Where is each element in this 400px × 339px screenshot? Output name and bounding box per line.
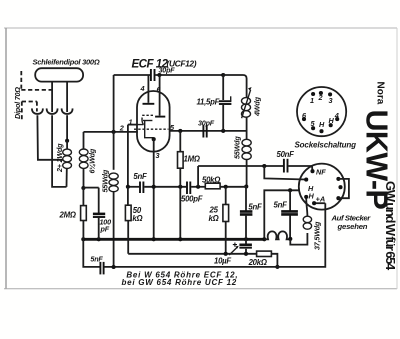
svg-text:10µF: 10µF <box>214 257 231 266</box>
svg-text:5nF: 5nF <box>90 254 103 263</box>
svg-text:37,5Wdg: 37,5Wdg <box>313 221 322 250</box>
svg-text:pF: pF <box>100 224 110 233</box>
svg-text:500pF: 500pF <box>181 195 203 204</box>
svg-text:55Wdg: 55Wdg <box>101 169 110 192</box>
svg-text:2: 2 <box>119 124 124 133</box>
svg-text:4: 4 <box>334 111 339 120</box>
svg-text:1: 1 <box>129 118 133 127</box>
svg-text:50kΩ: 50kΩ <box>202 176 220 185</box>
svg-text:Schleifendipol 300Ω: Schleifendipol 300Ω <box>33 58 100 67</box>
svg-text:6¼Wdg: 6¼Wdg <box>88 148 97 173</box>
svg-text:1MΩ: 1MΩ <box>184 155 200 164</box>
svg-text:5nF: 5nF <box>133 172 147 181</box>
svg-text:GW und W für 654: GW und W für 654 <box>383 181 398 271</box>
svg-text:30pF: 30pF <box>159 66 176 75</box>
svg-text:kΩ: kΩ <box>209 214 219 223</box>
svg-text:5nF: 5nF <box>248 203 262 212</box>
svg-text:H: H <box>319 120 325 129</box>
svg-text:5: 5 <box>311 119 316 128</box>
svg-text:20kΩ: 20kΩ <box>248 258 267 267</box>
svg-text:3: 3 <box>329 96 333 105</box>
svg-text:kΩ: kΩ <box>132 214 142 223</box>
svg-text:4: 4 <box>140 84 145 93</box>
svg-text:5nF: 5nF <box>274 201 288 210</box>
svg-text:4Wdg: 4Wdg <box>253 96 262 117</box>
svg-text:Nora: Nora <box>375 82 386 105</box>
svg-text:11,5pF: 11,5pF <box>197 98 220 107</box>
svg-text:55Wdg: 55Wdg <box>233 136 242 159</box>
svg-text:2MΩ: 2MΩ <box>59 211 76 220</box>
svg-text:bei GW 654 Röhre UCF 12: bei GW 654 Röhre UCF 12 <box>122 278 238 287</box>
svg-text:6: 6 <box>302 111 307 120</box>
svg-text:2: 2 <box>318 93 323 102</box>
svg-text:Sockelschaltung: Sockelschaltung <box>295 140 357 149</box>
svg-text:H: H <box>309 192 315 201</box>
svg-text:3: 3 <box>156 151 160 160</box>
svg-text:50nF: 50nF <box>277 150 295 159</box>
svg-text:NF: NF <box>316 168 326 177</box>
svg-text:2+ 2Wdg: 2+ 2Wdg <box>55 143 64 173</box>
svg-text:+A: +A <box>316 195 326 204</box>
svg-text:30pF: 30pF <box>198 119 215 128</box>
svg-text:H: H <box>329 116 335 125</box>
svg-text:Dipol 70Ω: Dipol 70Ω <box>13 87 22 119</box>
svg-text:gesehen: gesehen <box>337 222 368 231</box>
svg-text:1: 1 <box>310 96 314 105</box>
